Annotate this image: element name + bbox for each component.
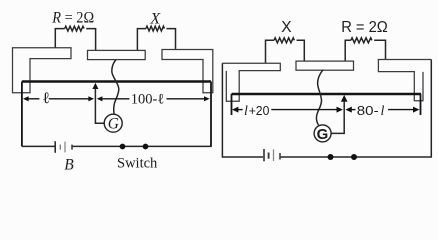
wire bottom rail to right strip 2 — [281, 60, 432, 158]
arrow l (left span) — [28, 98, 89, 100]
wavy wire 2 middle strip to G — [316, 70, 323, 125]
jockey arrow 2 — [331, 95, 347, 133]
jockey arrow on wire — [92, 83, 104, 123]
arrow 80-l — [351, 109, 413, 111]
copper strip right 2 (L-shape) — [378, 60, 431, 101]
copper strip left 2 (L-shape) — [222, 63, 280, 101]
copper strip middle 2 — [296, 61, 354, 70]
copper strip middle — [88, 50, 146, 59]
svg-text:G: G — [108, 116, 119, 133]
wire bridge right end post / battery lead — [210, 82, 212, 147]
resistor X2 — [266, 38, 305, 64]
svg-text:X: X — [281, 19, 292, 36]
svg-text:R = 2Ω: R = 2Ω — [51, 10, 94, 27]
switch contact dots — [120, 144, 126, 150]
svg-text:B: B — [64, 156, 74, 173]
wire left side down to battery 2 — [222, 63, 263, 157]
svg-text:G: G — [317, 126, 329, 143]
wire bridge left end post / battery lead — [21, 82, 23, 147]
battery B — [55, 141, 72, 153]
arrow 100-l (right span) — [102, 98, 204, 100]
svg-text:l: l — [381, 104, 385, 119]
svg-text:Switch: Switch — [117, 156, 158, 172]
scale end post left 2 — [231, 94, 233, 115]
copper strip left (L-shape) — [13, 48, 72, 93]
battery 2 — [264, 149, 280, 161]
svg-text:R = 2Ω: R = 2Ω — [341, 19, 388, 36]
wavy wire middle strip to G — [112, 60, 119, 115]
bridge wire 2 (thick) — [232, 93, 422, 96]
galvanometer G2 — [314, 125, 331, 143]
wire bottom left to battery — [22, 145, 55, 147]
wire battery to bridge right end — [73, 82, 211, 147]
resistor R2 (R = 2 ohm) — [345, 38, 385, 61]
svg-text:l: l — [244, 104, 248, 119]
svg-text:+20: +20 — [249, 103, 270, 118]
switch contact dots 2 — [328, 154, 334, 160]
bridge wire (thick) — [22, 80, 211, 83]
svg-text:ℓ: ℓ — [42, 90, 50, 107]
resistor X1 (unknown X) — [137, 26, 175, 50]
galvanometer G1 — [104, 114, 122, 132]
arrow l+20 — [237, 109, 337, 111]
svg-text:100-ℓ: 100-ℓ — [131, 91, 165, 107]
copper strip right (L-shape) — [162, 50, 213, 93]
svg-text:80-: 80- — [357, 103, 379, 118]
resistor R1 (R = 2 ohm) — [55, 26, 95, 50]
scale end post right 2 — [420, 94, 422, 115]
